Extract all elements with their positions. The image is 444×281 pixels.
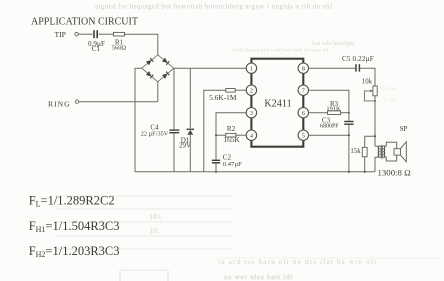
wire C4 to ground rail xyxy=(173,133,175,171)
wire Rt to ground rail xyxy=(204,90,226,172)
resistor 15k xyxy=(362,147,367,156)
wire secondary bottom to speaker xyxy=(383,155,396,161)
wire R3 to node X xyxy=(341,112,349,114)
resistor R2 xyxy=(226,133,236,137)
svg-text:FH1=1/1.504R3C3: FH1=1/1.504R3C3 xyxy=(29,219,120,234)
svg-text:FL=1/1.289R2C2: FL=1/1.289R2C2 xyxy=(29,194,115,209)
svg-text:10k: 10k xyxy=(362,79,373,86)
wire D1 to ground rail xyxy=(189,135,191,172)
wire pin2 to Rt xyxy=(235,89,246,91)
svg-text:3: 3 xyxy=(250,110,253,117)
svg-text:29V: 29V xyxy=(179,142,191,150)
svg-text:lu ard tse baru olt nu drs tla: lu ard tse baru olt nu drs tlat ba wrn o… xyxy=(218,258,377,266)
transformer core xyxy=(381,145,382,158)
wire pin3 to C2 node xyxy=(216,113,246,160)
pin 3 xyxy=(246,108,256,118)
wire pin8 to C5 xyxy=(308,67,355,69)
speaker SP xyxy=(394,142,406,162)
svg-text:R2: R2 xyxy=(227,125,236,133)
svg-text:2: 2 xyxy=(250,87,253,94)
resistor R1 xyxy=(114,32,125,36)
svg-text:HL: HL xyxy=(150,226,160,235)
capacitor C4 xyxy=(169,130,179,133)
svg-text:6800PF: 6800PF xyxy=(320,124,339,130)
svg-text:K2411: K2411 xyxy=(264,98,291,109)
bridge diode D-BL xyxy=(146,71,153,78)
junction R2-C2 node xyxy=(215,134,217,136)
pin 4 xyxy=(246,130,256,140)
wire node A to 15k xyxy=(365,136,375,147)
junction R3-nodeX xyxy=(348,112,350,114)
potentiometer 10k xyxy=(364,86,377,102)
wire V+ down to C4 xyxy=(173,68,175,129)
junction C2-rail xyxy=(215,171,217,173)
zener diode D1 xyxy=(187,128,195,134)
svg-text:lasi tulo baselgiq: lasi tulo baselgiq xyxy=(312,40,354,47)
pin 2 xyxy=(246,85,256,95)
svg-text:le atd: le atd xyxy=(384,97,396,103)
svg-text:FH2=1/1.203R3C3: FH2=1/1.203R3C3 xyxy=(29,244,120,259)
TIP terminal xyxy=(75,33,78,36)
wire pin7 to node X xyxy=(308,90,349,113)
wire V+ down to D1 xyxy=(189,68,191,129)
junction node A xyxy=(374,135,376,137)
label R2 165K xyxy=(223,125,240,144)
bridge diode D-TL xyxy=(146,58,153,65)
svg-text:APPLICATION CIRCUIT: APPLICATION CIRCUIT xyxy=(31,17,138,28)
op IC U1 K2411 body xyxy=(251,59,303,147)
wire C5 to pot xyxy=(360,68,375,86)
junction pin5-C3 xyxy=(348,134,350,136)
wire pin5 to C3 line xyxy=(308,134,349,136)
label 0.9uF C1 xyxy=(88,40,105,53)
bridge rectifier diamond xyxy=(142,55,174,82)
label R3 191K xyxy=(326,101,341,113)
wire primary bottom to rail end xyxy=(375,157,380,172)
background ghost bleed-through text top xyxy=(95,4,396,104)
svg-text:rt ul an: rt ul an xyxy=(380,86,396,92)
svg-text:HI1: HI1 xyxy=(150,212,162,221)
transformer T1 primary coil xyxy=(378,146,379,157)
pin 1 xyxy=(246,63,256,73)
wire pot to node A xyxy=(374,96,376,146)
svg-text:15k: 15k xyxy=(350,148,361,155)
svg-text:22 µF/35V: 22 µF/35V xyxy=(141,131,169,138)
capacitor C2 xyxy=(212,160,220,163)
svg-text:6: 6 xyxy=(302,110,305,117)
svg-text:5: 5 xyxy=(302,132,305,139)
RING terminal xyxy=(75,100,78,103)
wire bridge right vertex to pin 1 xyxy=(174,67,247,69)
wire pin6 to R3 xyxy=(308,112,327,114)
background ghost table rows bottom xyxy=(55,196,438,281)
transformer T1 secondary coil xyxy=(383,146,384,157)
svg-text:1300:8 Ω: 1300:8 Ω xyxy=(378,167,412,177)
label C3 6800PF xyxy=(320,116,339,129)
label D1 29V xyxy=(179,136,191,149)
svg-text:C5 0.22µF: C5 0.22µF xyxy=(342,55,374,63)
bridge diode D-BR xyxy=(162,71,169,78)
junction 15k-rail xyxy=(364,171,366,173)
wire node A to transformer primary xyxy=(375,145,380,147)
label R1 560ohm xyxy=(112,40,127,52)
bridge diode D-TR xyxy=(162,58,169,65)
wire pin4 to R2 xyxy=(236,134,246,136)
svg-text:165K: 165K xyxy=(223,135,240,144)
svg-text:0.47µF: 0.47µF xyxy=(223,161,242,168)
resistor R3 xyxy=(328,111,341,115)
wire 15k to ground rail xyxy=(364,157,366,172)
svg-text:na wot ulse batt ldt: na wot ulse batt ldt xyxy=(224,274,293,281)
pin 6 xyxy=(298,108,308,118)
capacitor C1 xyxy=(94,30,97,38)
wire secondary top to speaker xyxy=(383,142,396,148)
svg-text:1: 1 xyxy=(250,65,253,72)
svg-text:5.6K-1M: 5.6K-1M xyxy=(209,93,237,102)
pin 7 xyxy=(298,85,308,95)
wire R1 to bridge top xyxy=(125,34,158,54)
label C2 0.47uF xyxy=(223,154,242,168)
svg-text:TIP: TIP xyxy=(55,30,66,39)
svg-text:aigued for bsqaagcd bot bawott: aigued for bsqaagcd bot bawottab hotuorb… xyxy=(95,4,332,11)
wire TIP to C1 xyxy=(78,33,92,35)
pin 8 xyxy=(298,63,308,73)
wire C2 to ground rail xyxy=(215,164,217,172)
label C4 22uF/35V xyxy=(141,124,169,138)
ground rail xyxy=(135,171,375,173)
wire R2 to C2 node xyxy=(216,134,226,136)
svg-text:8: 8 xyxy=(302,65,305,72)
junction C3-rail xyxy=(348,171,350,173)
wire RING to bridge bottom xyxy=(79,101,158,103)
svg-text:RING: RING xyxy=(48,100,71,109)
capacitor C5 xyxy=(356,64,359,71)
svg-text:191K: 191K xyxy=(326,106,341,113)
svg-text:ur tid luaraq tnol wolt baru l: ur tid luaraq tnol wolt baru lasb urt ol… xyxy=(232,48,329,54)
wire C1 to R1 xyxy=(99,33,114,35)
svg-text:C1: C1 xyxy=(92,45,101,53)
pin 5 xyxy=(298,130,308,140)
svg-text:7: 7 xyxy=(302,87,305,94)
wire bridge bottom vertex down xyxy=(157,82,159,102)
wire C3 to ground rail xyxy=(348,125,350,172)
svg-text:560Ω: 560Ω xyxy=(112,45,127,52)
svg-text:SP: SP xyxy=(400,125,408,133)
wire node X to C3 xyxy=(348,113,350,121)
resistor Rt 5.6K-1M xyxy=(226,89,235,93)
wire bridge left vertex to ground rail xyxy=(135,68,142,172)
capacitor C3 xyxy=(344,122,353,125)
